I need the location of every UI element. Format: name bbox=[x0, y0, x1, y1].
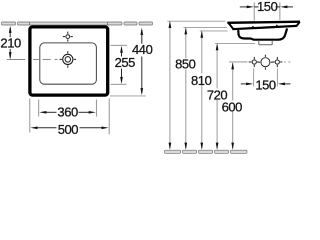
fitting holes centerline (dash-dot) bbox=[229, 61, 290, 63]
elevation: rim underside bbox=[232, 26, 296, 29]
height dimension 850 bbox=[167, 21, 225, 150]
svg-text:600: 600 bbox=[222, 99, 243, 114]
svg-text:440: 440 bbox=[132, 42, 153, 57]
elevation: tap hole mark right bbox=[275, 24, 278, 27]
svg-text:850: 850 bbox=[175, 57, 196, 72]
supply hole right bbox=[272, 57, 282, 67]
svg-text:210: 210 bbox=[0, 36, 21, 51]
elevation: tap hole mark left bbox=[251, 26, 254, 29]
supply hole left bbox=[249, 57, 259, 67]
height dimension 810 bbox=[184, 27, 228, 149]
basin inner bowl (top view) bbox=[40, 43, 97, 84]
dimension 360 bbox=[39, 100, 97, 120]
tap hole (top view) bbox=[63, 32, 73, 42]
waste hole (center) bbox=[258, 55, 273, 70]
elevation: rim top bbox=[228, 22, 301, 23]
floor bar bbox=[165, 150, 248, 153]
dimension 255 bbox=[111, 45, 136, 84]
elevation: left wing edge bbox=[228, 22, 233, 29]
wall bar (top view, behind basin) bbox=[2, 22, 153, 25]
elevation: bowl underside bbox=[238, 28, 287, 39]
drain (top view) bbox=[60, 51, 77, 68]
dimension 150 (top) bbox=[240, 0, 293, 14]
svg-text:255: 255 bbox=[115, 55, 136, 70]
svg-text:150: 150 bbox=[255, 77, 276, 92]
top 150 extension lines bbox=[253, 3, 255, 21]
basin outer rim (top view) bbox=[30, 27, 108, 95]
height dimension 720 bbox=[207, 43, 255, 150]
bottom 150 extension lines bbox=[253, 69, 255, 87]
dimension 440 bbox=[110, 28, 153, 96]
svg-text:150: 150 bbox=[257, 0, 278, 14]
elevation: drain tab bbox=[259, 40, 272, 45]
height dimension 600 bbox=[222, 62, 243, 149]
svg-text:500: 500 bbox=[58, 122, 79, 137]
elevation: right front edge bbox=[296, 22, 300, 26]
height dimension (rim underside) bbox=[200, 31, 228, 150]
dimension 150 (holes) bbox=[241, 77, 291, 92]
dimension 500 bbox=[30, 99, 109, 138]
dimension 210 bbox=[0, 26, 21, 59]
svg-text:360: 360 bbox=[57, 105, 78, 120]
drain centerline (dash-dot) bbox=[7, 58, 58, 60]
